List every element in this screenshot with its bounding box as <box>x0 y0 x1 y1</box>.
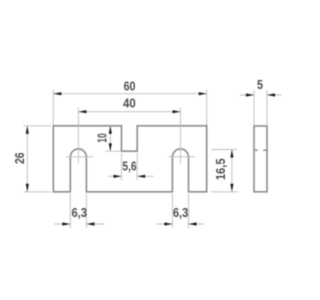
front view plate outline <box>53 126 206 192</box>
dim 40 arrow right <box>173 110 181 113</box>
side view outline <box>254 126 267 192</box>
dim 16,5 extension top <box>211 149 237 151</box>
dim 26 extension bottom <box>24 191 52 193</box>
dim 5 line tails <box>240 94 282 96</box>
svg-text:60: 60 <box>124 79 136 94</box>
dim 60 arrow right <box>199 92 207 95</box>
dim 16,5 arrow top <box>230 150 233 158</box>
dim 5 extension left <box>253 90 255 125</box>
dim 60 extension right <box>206 90 208 126</box>
svg-text:5,6: 5,6 <box>122 158 136 173</box>
dim 6,3 right arrow left <box>164 222 172 225</box>
svg-text:5: 5 <box>257 77 263 92</box>
dim 10 line vertical <box>109 126 111 151</box>
dim 5 extension right <box>266 90 268 125</box>
left slot centerline horizontal <box>66 156 93 158</box>
dim 6,3 right arrow right <box>189 222 197 225</box>
dim 26 line vertical <box>26 126 28 192</box>
dim 10 arrow bottom <box>109 143 112 151</box>
dim 26 arrow top <box>26 126 29 134</box>
dim 16,5 line vertical <box>231 150 233 192</box>
dim 5,6 arrow left <box>114 175 122 178</box>
dim 5,6 line tails <box>108 175 153 177</box>
dim 40 arrow left <box>78 110 86 113</box>
dim 60 arrow left <box>53 92 61 95</box>
dim 26 extension top <box>24 125 52 127</box>
svg-text:40: 40 <box>123 95 136 110</box>
svg-text:26: 26 <box>12 152 27 164</box>
left slot centerline vertical <box>77 108 79 164</box>
right slot centerline vertical <box>180 108 182 164</box>
side view hidden line dashes <box>254 149 267 151</box>
dim 6,3 right line tails <box>157 223 205 225</box>
dim 6,3 left extensions <box>70 194 86 229</box>
dim 6,3 left arrow left <box>62 222 70 225</box>
dim 16,5 extension bottom <box>211 191 238 193</box>
dim 5,6 extension right <box>136 153 138 180</box>
dim 16,5 arrow bottom <box>230 184 233 192</box>
dim 10 extension horizontal <box>106 150 122 152</box>
svg-text:6,3: 6,3 <box>71 205 87 220</box>
dim 6,3 right extensions <box>172 194 188 229</box>
right slot centerline horizontal <box>168 156 195 158</box>
dim 40 line <box>78 111 180 113</box>
dim 26 arrow bottom <box>26 184 29 192</box>
dim 5,6 arrow right <box>137 175 145 178</box>
svg-text:16,5: 16,5 <box>213 158 228 180</box>
thin lines group <box>24 90 282 229</box>
svg-text:6,3: 6,3 <box>173 205 189 220</box>
arrowheads <box>26 92 275 226</box>
dim 5,6 extension left <box>121 153 123 180</box>
dim 6,3 left arrow right <box>86 222 94 225</box>
dim 60 line <box>53 93 206 95</box>
dim 6,3 left line tails <box>55 223 105 225</box>
dim 5 arrow left <box>246 93 254 96</box>
svg-text:10: 10 <box>95 133 110 142</box>
dim 60 extension left <box>52 90 54 126</box>
dim 10 arrow top <box>109 126 112 134</box>
dim 5 arrow right <box>267 93 275 96</box>
